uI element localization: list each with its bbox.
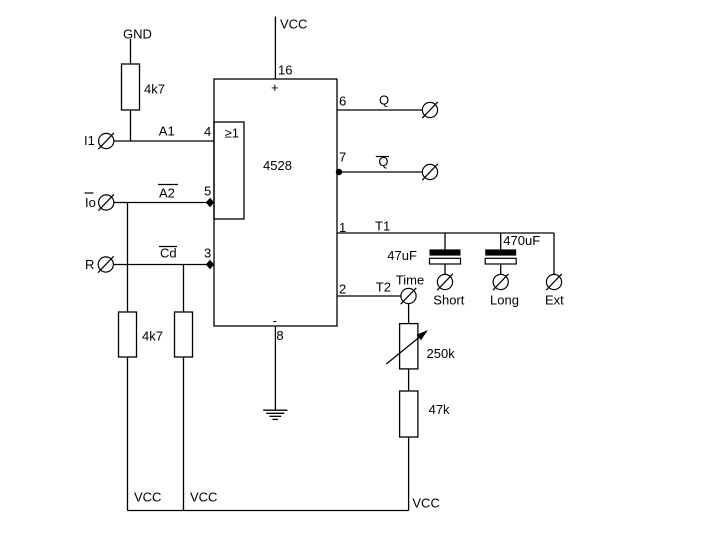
svg-text:3: 3 [204,246,211,261]
svg-text:250k: 250k [427,346,456,361]
svg-text:8: 8 [276,328,283,343]
svg-text:R: R [85,257,94,272]
svg-text:Long: Long [490,293,519,308]
svg-text:Time: Time [396,272,424,287]
svg-text:4: 4 [204,124,211,139]
svg-text:+: + [271,80,279,95]
svg-text:GND: GND [123,27,152,42]
svg-text:Cd: Cd [160,246,177,261]
svg-text:I1: I1 [84,133,95,148]
svg-text:VCC: VCC [134,489,161,504]
svg-text:Ext: Ext [545,293,564,308]
svg-text:≥1: ≥1 [225,126,239,141]
svg-text:16: 16 [278,62,292,77]
svg-text:47k: 47k [429,402,450,417]
svg-text:A2: A2 [159,186,175,201]
svg-text:Io: Io [85,195,96,210]
svg-text:VCC: VCC [190,490,217,505]
svg-text:A1: A1 [159,124,175,139]
svg-text:VCC: VCC [412,496,439,511]
svg-text:4528: 4528 [263,158,292,173]
svg-text:470uF: 470uF [503,233,540,248]
svg-text:7: 7 [339,150,346,165]
svg-text:T1: T1 [375,219,390,234]
svg-text:T2: T2 [376,280,391,295]
svg-text:Q: Q [379,92,389,107]
svg-text:Q: Q [378,154,388,169]
svg-text:4k7: 4k7 [144,82,165,97]
svg-text:Short: Short [433,293,464,308]
svg-text:47uF: 47uF [387,248,417,263]
svg-text:6: 6 [339,93,346,108]
svg-text:1: 1 [339,220,346,235]
svg-text:VCC: VCC [280,17,307,32]
svg-text:2: 2 [339,282,346,297]
svg-text:5: 5 [204,184,211,199]
svg-text:-: - [273,313,277,328]
svg-text:4k7: 4k7 [142,329,163,344]
